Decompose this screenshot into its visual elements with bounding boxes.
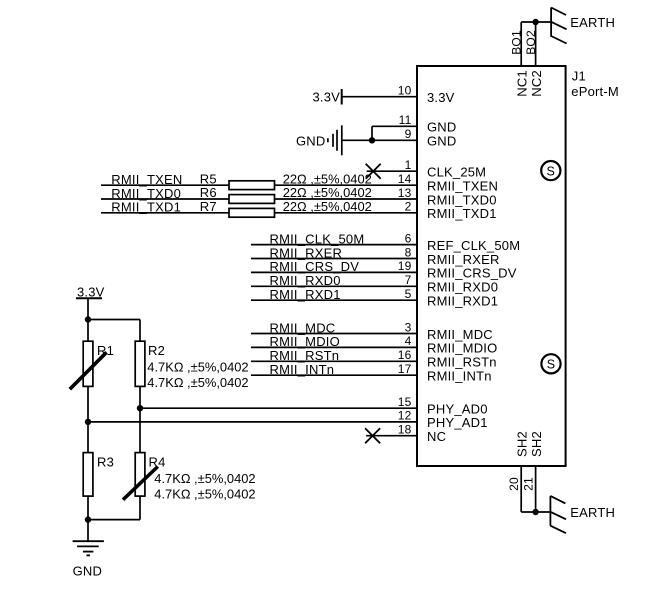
svg-text:CLK_25M: CLK_25M bbox=[427, 165, 486, 180]
net label RMII_TXD0 bbox=[111, 186, 181, 201]
pin 10 number bbox=[398, 84, 412, 98]
pin 2 number bbox=[405, 200, 412, 214]
pin 15 number bbox=[398, 395, 412, 409]
svg-text:RMII_RSTn: RMII_RSTn bbox=[427, 355, 497, 370]
svg-text:RMII_TXD0: RMII_TXD0 bbox=[427, 192, 497, 207]
pin 11 number bbox=[399, 113, 412, 127]
svg-text:17: 17 bbox=[398, 362, 412, 376]
R4 variant slash bbox=[123, 467, 158, 500]
net label RMII_RXER bbox=[270, 245, 343, 260]
pin 1 (CLK_25M) wire bbox=[367, 170, 417, 172]
svg-text:1: 1 bbox=[405, 158, 412, 172]
svg-text:RMII_MDIO: RMII_MDIO bbox=[270, 334, 340, 349]
pin 6 (REF_CLK_50M) wire bbox=[251, 244, 417, 246]
svg-text:GND: GND bbox=[427, 134, 457, 149]
pin 21 number bbox=[522, 477, 536, 491]
pin 14 name RMII_TXEN bbox=[427, 179, 498, 194]
shield symbol S1 bbox=[541, 161, 560, 180]
svg-text:SH2: SH2 bbox=[529, 431, 544, 457]
svg-text:R6: R6 bbox=[200, 185, 217, 200]
pin 12 name PHY_AD1 bbox=[427, 415, 488, 430]
svg-text:RMII_RXER: RMII_RXER bbox=[270, 245, 343, 260]
net label RMII_RXD1 bbox=[270, 287, 341, 302]
pin 17 name RMII_INTn bbox=[427, 369, 492, 384]
resistor R7 22 ohm bbox=[200, 199, 275, 217]
svg-text:RMII_INTn: RMII_INTn bbox=[270, 362, 335, 377]
svg-text:R3: R3 bbox=[97, 454, 114, 469]
shield symbol S2 bbox=[541, 354, 560, 373]
svg-text:22Ω ,±5%,0402: 22Ω ,±5%,0402 bbox=[283, 185, 372, 200]
pin 8 name RMII_RXER bbox=[427, 252, 500, 267]
svg-text:RMII_RXER: RMII_RXER bbox=[427, 252, 500, 267]
wire: R4 bottom to ground node bbox=[88, 496, 140, 519]
net label RMII_RXD0 bbox=[270, 273, 341, 288]
svg-text:S: S bbox=[547, 164, 556, 178]
wire: top earth connection bbox=[521, 21, 551, 23]
pin 16 (RMII_RSTn) wire bbox=[251, 360, 417, 362]
svg-text:4: 4 bbox=[405, 334, 412, 348]
svg-text:9: 9 bbox=[405, 127, 412, 141]
pin 16 number bbox=[398, 348, 412, 362]
pin 5 (RMII_RXD1) wire bbox=[251, 299, 417, 301]
svg-text:7: 7 bbox=[405, 273, 412, 287]
wire: R1 to R3 bbox=[87, 386, 89, 452]
svg-text:3.3V: 3.3V bbox=[427, 90, 455, 105]
pin 6 name REF_CLK_50M bbox=[427, 238, 520, 253]
net label EARTH (top) bbox=[570, 15, 615, 30]
svg-text:NC: NC bbox=[427, 429, 446, 444]
svg-text:RMII_TXD1: RMII_TXD1 bbox=[427, 206, 497, 221]
svg-text:BO1: BO1 bbox=[509, 30, 523, 55]
node: junction PHY_AD0 bbox=[137, 405, 143, 411]
svg-text:RMII_CRS_DV: RMII_CRS_DV bbox=[270, 259, 360, 274]
pin 14 number bbox=[398, 172, 412, 186]
wire: R3 to ground bbox=[87, 496, 89, 541]
resistor R2 4.7K bbox=[135, 341, 248, 390]
pin 11 (GND) wire bbox=[372, 125, 417, 127]
svg-text:8: 8 bbox=[405, 245, 412, 259]
svg-text:RMII_CRS_DV: RMII_CRS_DV bbox=[427, 266, 517, 281]
net label RMII_INTn bbox=[270, 362, 335, 377]
pin 8 number bbox=[405, 245, 412, 259]
svg-text:11: 11 bbox=[399, 113, 412, 127]
pin BO2 (NC2) wire bbox=[535, 22, 537, 66]
pin 2 name RMII_TXD1 bbox=[427, 206, 497, 221]
pin SH2 name (pin 21) bbox=[529, 431, 544, 457]
node: junction at SH2 bottom bbox=[532, 509, 538, 515]
resistor R6 22 ohm bbox=[200, 185, 275, 203]
svg-text:2: 2 bbox=[405, 200, 412, 214]
pin BO2 number bbox=[524, 30, 538, 55]
svg-text:ePort-M: ePort-M bbox=[571, 84, 619, 99]
svg-text:RMII_TXEN: RMII_TXEN bbox=[111, 172, 182, 187]
pin 20 (SH2) wire bbox=[520, 466, 522, 512]
pin 18 (NC) wire bbox=[366, 435, 417, 437]
pin BO1 number bbox=[509, 30, 523, 55]
connector J1 body bbox=[417, 66, 566, 466]
pin 15 name PHY_AD0 bbox=[427, 402, 488, 417]
svg-text:4.7KΩ ,±5%,0402: 4.7KΩ ,±5%,0402 bbox=[154, 486, 255, 501]
pin 13 name RMII_TXD0 bbox=[427, 192, 497, 207]
pin 14 (RMII_TXEN) wire bbox=[101, 184, 417, 186]
pin 5 name RMII_RXD1 bbox=[427, 294, 498, 309]
pin 3 (RMII_MDC) wire bbox=[251, 333, 417, 335]
svg-text:6: 6 bbox=[405, 231, 412, 245]
pin 6 number bbox=[405, 231, 412, 245]
resistor R5 22 ohm bbox=[200, 171, 275, 189]
pin 9 name GND bbox=[427, 134, 457, 149]
net label RMII_TXD1 bbox=[111, 200, 181, 215]
svg-text:19: 19 bbox=[398, 259, 412, 273]
pin SH2 name (pin 20) bbox=[515, 431, 530, 457]
power symbol 3.3V (pin 10) bbox=[312, 89, 341, 105]
value label 22ohm for R7 bbox=[283, 199, 372, 214]
pin 21 (SH2) wire bbox=[535, 466, 537, 512]
pin 20 number bbox=[507, 477, 521, 491]
pin 1 number bbox=[405, 158, 412, 172]
power symbol 3.3V (left) bbox=[76, 284, 105, 319]
svg-text:R7: R7 bbox=[200, 199, 217, 214]
svg-text:RMII_CLK_50M: RMII_CLK_50M bbox=[270, 231, 365, 246]
svg-text:RMII_TXD0: RMII_TXD0 bbox=[111, 186, 181, 201]
pin 19 name RMII_CRS_DV bbox=[427, 266, 517, 281]
pin 13 number bbox=[398, 186, 412, 200]
svg-text:13: 13 bbox=[398, 186, 412, 200]
svg-text:14: 14 bbox=[398, 172, 412, 186]
resistor R3 bbox=[83, 453, 114, 497]
svg-text:4.7KΩ ,±5%,0402: 4.7KΩ ,±5%,0402 bbox=[154, 471, 255, 486]
svg-text:RMII_RXD0: RMII_RXD0 bbox=[427, 280, 498, 295]
pin 12 number bbox=[398, 409, 412, 423]
svg-text:15: 15 bbox=[398, 395, 412, 409]
node: junction PHY_AD1 bbox=[85, 419, 91, 425]
pin NC1 name bbox=[515, 70, 530, 97]
pin 7 (RMII_RXD0) wire bbox=[251, 285, 417, 287]
svg-text:EARTH: EARTH bbox=[570, 15, 615, 30]
svg-text:22Ω ,±5%,0402: 22Ω ,±5%,0402 bbox=[283, 199, 372, 214]
svg-text:21: 21 bbox=[522, 477, 536, 491]
svg-text:PHY_AD1: PHY_AD1 bbox=[427, 415, 488, 430]
svg-text:18: 18 bbox=[398, 423, 412, 437]
ground symbol GND (pins 9,11) bbox=[296, 125, 342, 155]
no-connect X on pin 1 bbox=[366, 164, 381, 179]
node: junction at NC2 top bbox=[532, 19, 538, 25]
pin 4 number bbox=[405, 334, 412, 348]
svg-text:RMII_RXD0: RMII_RXD0 bbox=[270, 273, 341, 288]
pin 15 (PHY_AD0) wire bbox=[140, 407, 417, 409]
svg-text:BO2: BO2 bbox=[524, 30, 538, 55]
pin 5 number bbox=[405, 287, 412, 301]
pin 9 (GND) wire bbox=[342, 139, 417, 141]
value label 22ohm for R5 bbox=[283, 171, 372, 186]
pin 19 (RMII_CRS_DV) wire bbox=[251, 271, 417, 273]
svg-text:REF_CLK_50M: REF_CLK_50M bbox=[427, 238, 520, 253]
svg-text:EARTH: EARTH bbox=[570, 505, 615, 520]
pin 16 name RMII_RSTn bbox=[427, 355, 497, 370]
svg-text:RMII_RXD1: RMII_RXD1 bbox=[270, 287, 341, 302]
pin 9 number bbox=[405, 127, 412, 141]
svg-text:RMII_MDC: RMII_MDC bbox=[427, 327, 493, 342]
svg-text:GND: GND bbox=[427, 120, 457, 135]
pin 3 name RMII_MDC bbox=[427, 327, 493, 342]
net label RMII_MDIO bbox=[270, 334, 340, 349]
pin 10 (3.3V) wire bbox=[342, 96, 417, 98]
svg-text:12: 12 bbox=[398, 409, 412, 423]
svg-text:16: 16 bbox=[398, 348, 412, 362]
net label RMII_CRS_DV bbox=[270, 259, 360, 274]
ground symbol GND (bottom) bbox=[73, 541, 104, 578]
svg-text:10: 10 bbox=[398, 84, 412, 98]
pin 11 name GND bbox=[427, 120, 457, 135]
net label RMII_RSTn bbox=[270, 348, 340, 363]
svg-text:NC2: NC2 bbox=[529, 70, 544, 97]
pin 4 name RMII_MDIO bbox=[427, 341, 497, 356]
svg-text:S: S bbox=[547, 358, 556, 372]
pin 10 name 3.3V bbox=[427, 90, 455, 105]
svg-text:R5: R5 bbox=[200, 171, 217, 186]
svg-text:SH2: SH2 bbox=[515, 431, 530, 457]
svg-text:3.3V: 3.3V bbox=[77, 284, 105, 299]
svg-text:5: 5 bbox=[405, 287, 412, 301]
pin 13 (RMII_TXD0) wire bbox=[101, 198, 417, 200]
value label 22ohm for R6 bbox=[283, 185, 372, 200]
svg-text:RMII_TXEN: RMII_TXEN bbox=[427, 179, 498, 194]
wire: to R2 branch bbox=[88, 320, 140, 342]
net label EARTH (bottom) bbox=[570, 505, 615, 520]
svg-text:RMII_RXD1: RMII_RXD1 bbox=[427, 294, 498, 309]
node: junction at ground bbox=[85, 516, 91, 522]
pin 1 name CLK_25M bbox=[427, 165, 486, 180]
connector J1 reference designator bbox=[571, 68, 619, 99]
pin 3 number bbox=[405, 320, 412, 334]
pin 7 number bbox=[405, 273, 412, 287]
svg-text:RMII_MDIO: RMII_MDIO bbox=[427, 341, 497, 356]
svg-text:20: 20 bbox=[507, 477, 521, 491]
svg-text:NC1: NC1 bbox=[515, 70, 530, 97]
earth symbol (top) bbox=[551, 8, 567, 44]
net label RMII_TXEN bbox=[111, 172, 182, 187]
pin BO1 (NC1) wire bbox=[520, 22, 522, 66]
node: junction below 3.3V bbox=[85, 316, 91, 322]
no-connect X on pin 18 bbox=[365, 428, 380, 443]
node: junction of pins 9 and 11 bbox=[369, 126, 375, 143]
pin 8 (RMII_RXER) wire bbox=[251, 258, 417, 260]
svg-text:J1: J1 bbox=[572, 68, 586, 83]
pin 18 name NC bbox=[427, 429, 446, 444]
svg-text:4.7KΩ ,±5%,0402: 4.7KΩ ,±5%,0402 bbox=[147, 359, 248, 374]
svg-text:22Ω ,±5%,0402: 22Ω ,±5%,0402 bbox=[283, 171, 372, 186]
pin 7 name RMII_RXD0 bbox=[427, 280, 498, 295]
svg-text:GND: GND bbox=[73, 564, 103, 579]
pin 18 number bbox=[398, 423, 412, 437]
R1 variant slash bbox=[70, 352, 107, 389]
wire: 3.3V node to R1 bbox=[87, 320, 89, 342]
svg-text:RMII_MDC: RMII_MDC bbox=[270, 320, 336, 335]
pin 17 (RMII_INTn) wire bbox=[251, 374, 417, 376]
pin 2 (RMII_TXD1) wire bbox=[101, 212, 417, 214]
svg-text:3: 3 bbox=[405, 320, 412, 334]
svg-text:GND: GND bbox=[296, 133, 326, 148]
net label RMII_MDC bbox=[270, 320, 336, 335]
svg-text:RMII_RSTn: RMII_RSTn bbox=[270, 348, 340, 363]
svg-text:3.3V: 3.3V bbox=[312, 89, 340, 104]
svg-text:4.7KΩ ,±5%,0402: 4.7KΩ ,±5%,0402 bbox=[147, 375, 248, 390]
svg-text:RMII_TXD1: RMII_TXD1 bbox=[111, 200, 181, 215]
resistor R4 4.7K bbox=[135, 453, 255, 502]
pin 12 (PHY_AD1) wire bbox=[88, 421, 417, 423]
pin 19 number bbox=[398, 259, 412, 273]
wire: R2 to R4 bbox=[139, 386, 141, 452]
earth symbol (bottom) bbox=[550, 496, 566, 533]
net label RMII_CLK_50M bbox=[270, 231, 365, 246]
pin NC2 name bbox=[529, 70, 544, 97]
svg-text:RMII_INTn: RMII_INTn bbox=[427, 369, 492, 384]
wire: bottom earth connection bbox=[521, 511, 550, 513]
pin 4 (RMII_MDIO) wire bbox=[251, 346, 417, 348]
pin 17 number bbox=[398, 362, 412, 376]
resistor R1 bbox=[83, 341, 114, 386]
svg-text:R2: R2 bbox=[148, 343, 165, 358]
